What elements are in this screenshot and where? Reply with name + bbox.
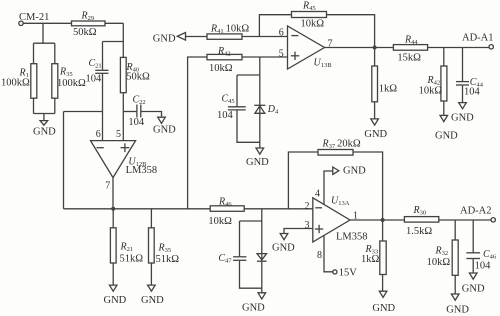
ground [33,121,56,138]
svg-text:CM-21: CM-21 [19,12,49,23]
svg-text:GND: GND [104,295,127,306]
resistor R1 [1,64,37,98]
wire [239,221,241,256]
wire [54,43,56,113]
ground [462,273,485,294]
wire [462,47,464,81]
ground [272,234,295,254]
svg-text:15kΩ: 15kΩ [397,53,421,64]
op-amp U13B [288,26,333,69]
ground [153,33,186,45]
svg-text:GND: GND [153,125,176,136]
svg-text:GND: GND [141,295,164,306]
svg-text:10kΩ: 10kΩ [301,18,325,29]
wire [42,23,44,43]
wire [472,259,474,273]
wire [240,220,262,222]
wire [242,56,288,58]
terminal 15V [333,268,358,279]
svg-text:GND: GND [33,127,56,138]
ground [364,119,387,140]
resistor 1k [372,66,398,102]
svg-text:AD-A1: AD-A1 [462,33,494,44]
svg-text:104: 104 [217,110,234,121]
wire [34,113,55,115]
wire [63,112,65,209]
capacitor C21 [86,58,109,84]
svg-text:GND: GND [451,112,474,123]
svg-text:104: 104 [128,117,145,128]
wire [112,209,114,285]
wire [43,114,45,121]
wire [454,220,456,294]
svg-text:1kΩ: 1kΩ [361,254,380,265]
svg-text:4: 4 [315,189,320,200]
wire [324,236,333,272]
junction [373,46,377,50]
op-amp U12B [91,141,158,178]
wire [123,111,136,113]
svg-text:GND: GND [462,283,485,294]
svg-text:GND: GND [372,303,395,314]
svg-text:6: 6 [279,27,284,38]
svg-text:GND: GND [272,242,295,253]
wire [472,220,474,252]
svg-text:51kΩ: 51kΩ [156,254,180,265]
svg-text:1.5kΩ: 1.5kΩ [406,226,432,237]
svg-text:10kΩ: 10kΩ [208,216,232,227]
resistor R35 [52,64,86,98]
ground [372,291,395,314]
wire [122,23,124,140]
svg-text:GND: GND [446,304,469,315]
svg-text:104: 104 [86,73,103,84]
junction [111,207,115,211]
ground [333,166,366,177]
svg-text:GND: GND [153,33,176,44]
wire [325,47,490,49]
svg-text:15V: 15V [339,268,358,279]
svg-text:104: 104 [475,260,492,271]
svg-text:7: 7 [105,181,110,192]
wire [102,74,104,141]
wire [237,110,260,142]
resistor R45 [292,1,327,30]
svg-text:50kΩ: 50kΩ [73,27,97,38]
svg-text:R3720kΩ: R3720kΩ [322,139,361,151]
wire [240,261,262,288]
wire [188,57,207,209]
wire [443,47,445,115]
wire [64,111,103,113]
svg-text:10kΩ: 10kΩ [419,86,443,97]
ground [246,148,269,168]
svg-text:8: 8 [317,250,322,261]
svg-text:51kΩ: 51kΩ [120,253,144,264]
svg-text:R4110kΩ: R4110kΩ [210,24,249,36]
wire [242,36,288,38]
wire [261,209,263,293]
capacitor C47 [218,253,246,265]
wire [23,22,123,24]
ground [451,103,474,124]
wire [150,209,152,285]
svg-text:1kΩ: 1kΩ [379,83,398,94]
svg-text:2: 2 [305,201,310,212]
wire [284,229,313,234]
terminal CM-21 [19,12,50,26]
wire [34,42,55,44]
wire [353,152,383,220]
wire [236,75,238,106]
diode D4 [254,104,279,116]
svg-text:LM358: LM358 [126,165,158,176]
svg-text:100kΩ: 100kΩ [1,78,30,89]
wire [462,86,464,103]
svg-text:6: 6 [96,129,101,140]
resistor R35 (51k) [149,228,180,265]
wire [350,219,491,221]
resistor R41 [207,24,249,40]
wire [33,43,35,113]
svg-text:100kΩ: 100kΩ [57,78,86,89]
wire [324,171,333,205]
wire [237,74,260,76]
capacitor C44 [456,77,484,98]
svg-text:10kΩ: 10kΩ [427,257,451,268]
op-amp U13A [313,195,368,242]
resistor R42 [207,46,242,74]
svg-text:GND: GND [435,130,458,141]
wire [186,36,208,38]
ground [153,117,176,136]
resistor R33 [361,241,386,275]
svg-text:GND: GND [246,157,269,168]
wire [141,112,161,118]
wire [374,48,376,119]
wire [103,41,124,43]
capacitor C46 [466,249,497,271]
ground [104,285,127,306]
resistor R29 [72,10,106,38]
svg-text:10kΩ: 10kΩ [209,63,233,74]
svg-text:GND: GND [343,166,366,177]
terminal AD-A1 [462,33,494,49]
ground [435,115,458,141]
resistor R32 [427,240,459,275]
resistor R21 [110,228,143,264]
wire [327,15,375,48]
svg-text:104: 104 [464,87,481,98]
wire [382,220,384,291]
svg-text:3: 3 [305,220,310,231]
wire [64,208,313,210]
wire [259,15,291,37]
wire [288,152,318,209]
svg-text:GND: GND [242,303,265,314]
wire [259,57,261,148]
resistor R42 (AD-A1) [419,66,447,101]
wire [112,178,114,209]
terminal AD-A2 [460,206,495,222]
junction [381,218,385,222]
resistor R44 [393,34,427,63]
svg-text:AD-A2: AD-A2 [460,206,492,217]
resistor R30 [404,205,438,237]
svg-text:5: 5 [116,129,121,140]
wire [102,42,104,70]
ground [446,294,469,315]
diode D5 [257,254,267,262]
svg-text:GND: GND [364,129,387,140]
svg-text:LM358: LM358 [336,231,368,242]
ground [141,285,164,306]
svg-text:5: 5 [279,48,284,59]
capacitor C22 [128,95,145,128]
resistor R46 [208,196,244,227]
ground [242,293,266,314]
resistor R37 [318,139,361,156]
resistor R40 [120,57,150,92]
svg-text:50kΩ: 50kΩ [126,72,150,83]
capacitor C45 [217,94,246,122]
